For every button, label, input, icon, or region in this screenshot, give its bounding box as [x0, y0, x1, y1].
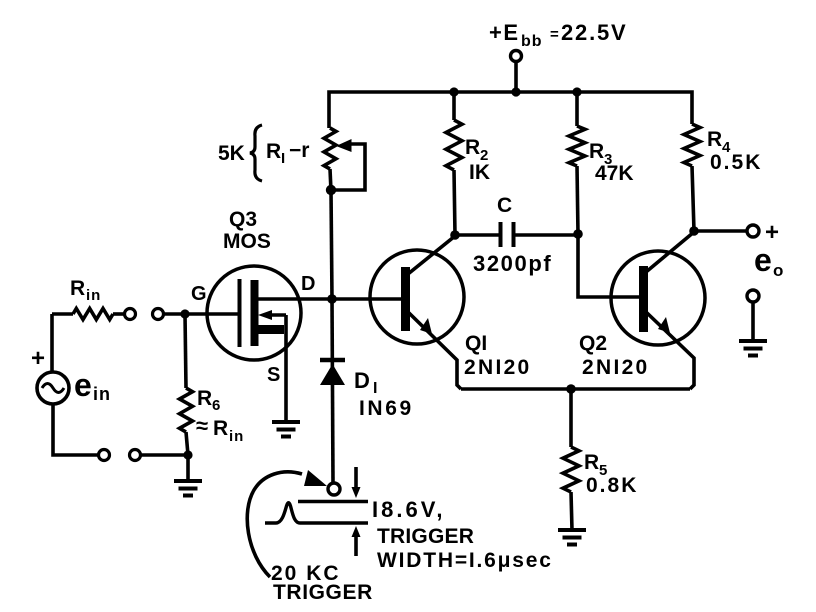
node emitter rail / R5	[566, 384, 576, 394]
svg-text:0.5K: 0.5K	[710, 151, 762, 174]
svg-text:R: R	[197, 387, 212, 410]
ground below R5	[558, 530, 586, 545]
Q2 collector wire	[646, 232, 694, 272]
capacitor C plates	[499, 222, 503, 247]
wire lower terminal to ground node	[141, 453, 188, 457]
wire to output terminal	[694, 229, 747, 233]
Q2 emitter arrowhead	[658, 317, 670, 333]
svg-text:e: e	[754, 242, 772, 278]
wire node to capacitor	[455, 233, 499, 237]
Q1 collector wire	[408, 235, 455, 274]
svg-text:5K: 5K	[218, 142, 245, 165]
supply terminal +Ebb	[511, 51, 522, 62]
Q1 base bar	[401, 267, 410, 331]
trigger input terminal	[328, 483, 340, 495]
svg-text:C: C	[497, 194, 512, 217]
Q1 emitter arrowhead	[420, 318, 432, 334]
svg-text:G: G	[191, 283, 207, 305]
Q3 drain lead wire to node D	[257, 297, 332, 301]
svg-text:−r: −r	[289, 139, 309, 162]
input terminal upper right	[153, 309, 164, 320]
svg-text:R: R	[213, 417, 228, 440]
svg-text:e: e	[74, 367, 92, 403]
svg-text:I: I	[373, 380, 377, 397]
svg-text:6: 6	[212, 397, 220, 414]
node rail/R3	[572, 87, 581, 96]
wire ein to lower terminal	[53, 404, 98, 455]
input terminal upper left	[125, 309, 136, 320]
svg-text:Q3: Q3	[229, 208, 257, 231]
resistor R4	[684, 124, 700, 166]
svg-text:R: R	[589, 140, 604, 163]
lower input terminal left	[99, 450, 110, 461]
svg-text:=: =	[550, 26, 559, 43]
transistor Q1 body circle	[370, 250, 464, 344]
node D junction	[327, 294, 337, 304]
wire Ebb terminal to rail	[514, 62, 518, 93]
svg-text:in: in	[86, 287, 101, 304]
node ground junction	[183, 450, 192, 459]
resistor R6	[185, 314, 186, 388]
svg-text:I: I	[281, 150, 285, 167]
brace {	[250, 125, 262, 181]
svg-text:TRIGGER: TRIGGER	[377, 525, 474, 548]
trigger amplitude down arrow	[354, 467, 358, 490]
R1 wiper arm wire	[333, 144, 365, 190]
diode D1	[320, 358, 345, 363]
svg-text:R: R	[465, 136, 480, 159]
node R3 / C / Q2 base	[573, 229, 583, 239]
svg-text:+E: +E	[489, 20, 520, 45]
wire R1 bottom to tap node	[330, 169, 331, 191]
svg-text:22.5V: 22.5V	[561, 20, 628, 45]
svg-text:I8.6V,: I8.6V,	[372, 497, 445, 522]
node Q1 collector / R2	[450, 230, 460, 240]
resistor Rin	[52, 312, 73, 316]
Q3 source tab	[257, 325, 284, 334]
Q2 emitter wire	[646, 312, 694, 389]
svg-text:o: o	[773, 261, 783, 280]
ground at input	[174, 481, 202, 496]
transistor Q2 body circle	[611, 251, 705, 345]
wire node D down to trigger terminal	[332, 299, 333, 482]
svg-text:Q2: Q2	[579, 332, 607, 355]
svg-text:TRIGGER: TRIGGER	[273, 581, 373, 604]
resistor R2	[452, 92, 456, 120]
output ground terminal	[747, 290, 759, 302]
svg-text:R: R	[584, 451, 599, 474]
Q1 emitter wire	[408, 312, 461, 389]
svg-text:D: D	[301, 273, 315, 295]
svg-text:47K: 47K	[595, 162, 634, 185]
svg-text:D: D	[354, 368, 370, 393]
node R1 tap junction	[326, 185, 336, 195]
svg-text:+: +	[31, 345, 45, 372]
Q3 source wire down	[284, 315, 288, 422]
svg-text:3200pf: 3200pf	[473, 251, 552, 276]
wire top supply rail	[329, 92, 692, 128]
svg-text:bb: bb	[521, 33, 543, 50]
Q3 substrate arrow	[267, 313, 286, 317]
svg-text:IK: IK	[469, 161, 490, 184]
svg-text:MOS: MOS	[223, 230, 271, 253]
svg-text:R: R	[266, 140, 281, 163]
R1 wiper arrowhead	[336, 139, 352, 152]
ground at output	[739, 341, 767, 356]
Q3 gate lead wire	[158, 312, 238, 316]
node rail/Ebb	[511, 87, 520, 96]
wire emitter rail	[461, 387, 690, 391]
resistor R5	[569, 389, 573, 447]
curved arrow 20KC	[247, 472, 302, 577]
trigger pulse waveform	[265, 503, 368, 523]
wire node down and right to Q2 base	[578, 234, 639, 297]
wire tap node down to node D	[331, 190, 332, 299]
svg-text:S: S	[267, 364, 280, 386]
output terminal eo	[747, 225, 759, 237]
mosfet Q3 body circle	[207, 266, 301, 360]
Q3 channel bar	[251, 280, 259, 346]
node G junction	[180, 309, 189, 318]
lower input terminal right	[130, 450, 141, 461]
Q2 base bar	[639, 266, 648, 332]
node rail/R2	[449, 87, 458, 96]
wire terminal to ground	[751, 302, 755, 341]
source ein circle	[50, 314, 54, 372]
node R4 / Q2 collector / output	[689, 226, 699, 236]
ground at Q3 source	[272, 422, 300, 437]
svg-text:IN69: IN69	[359, 397, 414, 420]
potentiometer R1 (5K) body	[324, 128, 336, 169]
svg-text:2NI20: 2NI20	[464, 356, 532, 379]
svg-text:≈: ≈	[196, 413, 208, 438]
resistor R3	[575, 92, 579, 126]
trigger level top line	[298, 500, 368, 504]
svg-text:R: R	[70, 277, 85, 300]
svg-text:in: in	[229, 428, 244, 445]
wire capacitor to node R3	[515, 233, 578, 237]
svg-text:2NI20: 2NI20	[582, 356, 650, 379]
svg-text:0.8K: 0.8K	[586, 474, 638, 497]
svg-text:in: in	[93, 384, 111, 404]
svg-text:WIDTH=I.6μsec: WIDTH=I.6μsec	[377, 549, 553, 572]
trigger amplitude up arrow	[354, 532, 358, 556]
Q3 gate bar	[238, 279, 242, 347]
svg-text:R: R	[707, 128, 722, 151]
svg-text:QI: QI	[465, 332, 487, 355]
wire node D to Q1 base	[332, 297, 401, 301]
